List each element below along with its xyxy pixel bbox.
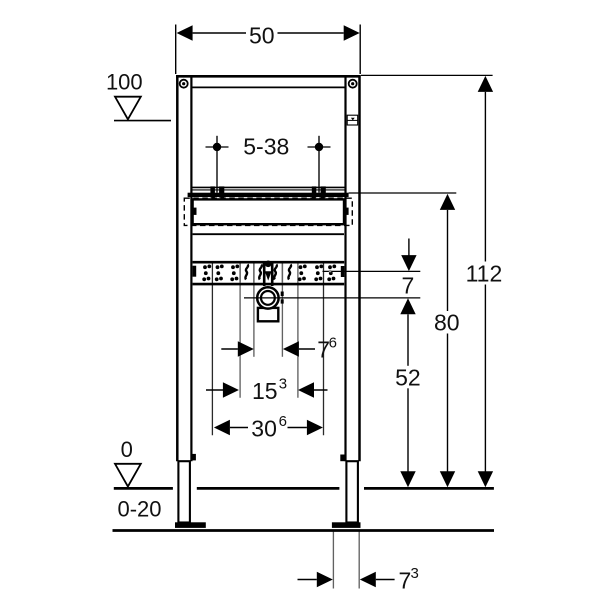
svg-text:0: 0	[121, 437, 133, 462]
svg-text:6: 6	[279, 413, 287, 430]
svg-text:6: 6	[329, 335, 337, 352]
svg-text:100: 100	[106, 70, 143, 95]
svg-text:3: 3	[279, 376, 287, 393]
svg-text:7: 7	[402, 273, 415, 299]
svg-text:5-38: 5-38	[243, 134, 289, 160]
svg-text:50: 50	[249, 22, 275, 48]
svg-text:52: 52	[395, 364, 421, 390]
svg-text:7: 7	[399, 568, 412, 594]
svg-text:30: 30	[251, 415, 277, 441]
svg-text:80: 80	[434, 310, 460, 336]
svg-text:0-20: 0-20	[118, 497, 162, 522]
svg-text:3: 3	[411, 565, 419, 582]
svg-text:15: 15	[252, 378, 278, 404]
svg-text:112: 112	[466, 260, 503, 286]
